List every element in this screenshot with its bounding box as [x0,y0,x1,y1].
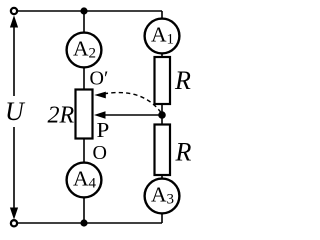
svg-text:2R: 2R [48,103,75,129]
svg-text:O′: O′ [90,68,109,90]
svg-text:R: R [174,66,191,95]
svg-text:U: U [5,97,26,126]
svg-text:R: R [175,138,192,167]
svg-text:P: P [97,118,110,142]
svg-text:O: O [93,142,107,164]
